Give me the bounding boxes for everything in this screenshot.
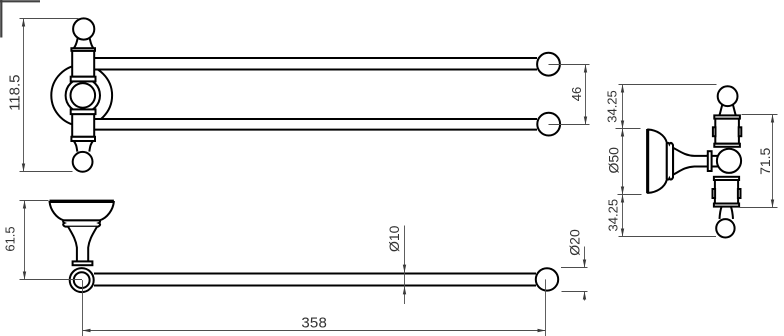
svg-text:118.5: 118.5 (6, 74, 23, 110)
svg-text:71.5: 71.5 (757, 147, 773, 174)
svg-text:34.25: 34.25 (605, 90, 620, 123)
svg-text:Ø10: Ø10 (386, 225, 402, 252)
svg-text:358: 358 (301, 315, 327, 332)
svg-text:Ø20: Ø20 (567, 229, 583, 256)
svg-text:34.25: 34.25 (606, 199, 621, 232)
svg-text:Ø50: Ø50 (606, 147, 622, 174)
svg-text:46: 46 (569, 87, 584, 101)
svg-text:61.5: 61.5 (3, 226, 18, 251)
